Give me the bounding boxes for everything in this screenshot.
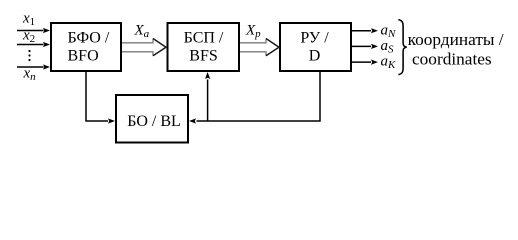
svg-text:РУ /: РУ / xyxy=(300,30,329,47)
ellipsis dots xyxy=(28,50,30,61)
svg-text:БСП /: БСП / xyxy=(184,30,224,47)
svg-text:координаты /: координаты / xyxy=(408,30,504,49)
block U2 БСП/BFS xyxy=(168,23,240,71)
svg-text:D: D xyxy=(309,48,321,65)
bus arrow Xp xyxy=(240,39,279,56)
svg-text:БФО /: БФО / xyxy=(68,30,110,47)
block U4 БО/BL xyxy=(116,95,188,143)
input arrow xn xyxy=(17,64,50,69)
output arrow aK xyxy=(352,60,378,65)
wire U1 to U4 xyxy=(86,72,115,124)
output arrow aS xyxy=(352,44,378,49)
bus arrow Xa xyxy=(122,39,166,56)
block U1 БФО/BFO xyxy=(51,23,121,71)
wire U3 to U4 xyxy=(189,72,320,124)
svg-text:БО / BL: БО / BL xyxy=(127,113,181,130)
wire branch to U2 xyxy=(205,72,210,121)
svg-text:BFS: BFS xyxy=(189,48,217,65)
block U3 РУ/D xyxy=(280,23,351,71)
output arrow aN xyxy=(352,28,378,33)
input arrow x2 xyxy=(17,42,50,47)
brace xyxy=(398,20,406,75)
svg-text:BFO: BFO xyxy=(68,48,99,65)
input arrow x1 xyxy=(17,28,50,33)
svg-text:coordinates: coordinates xyxy=(412,50,492,69)
